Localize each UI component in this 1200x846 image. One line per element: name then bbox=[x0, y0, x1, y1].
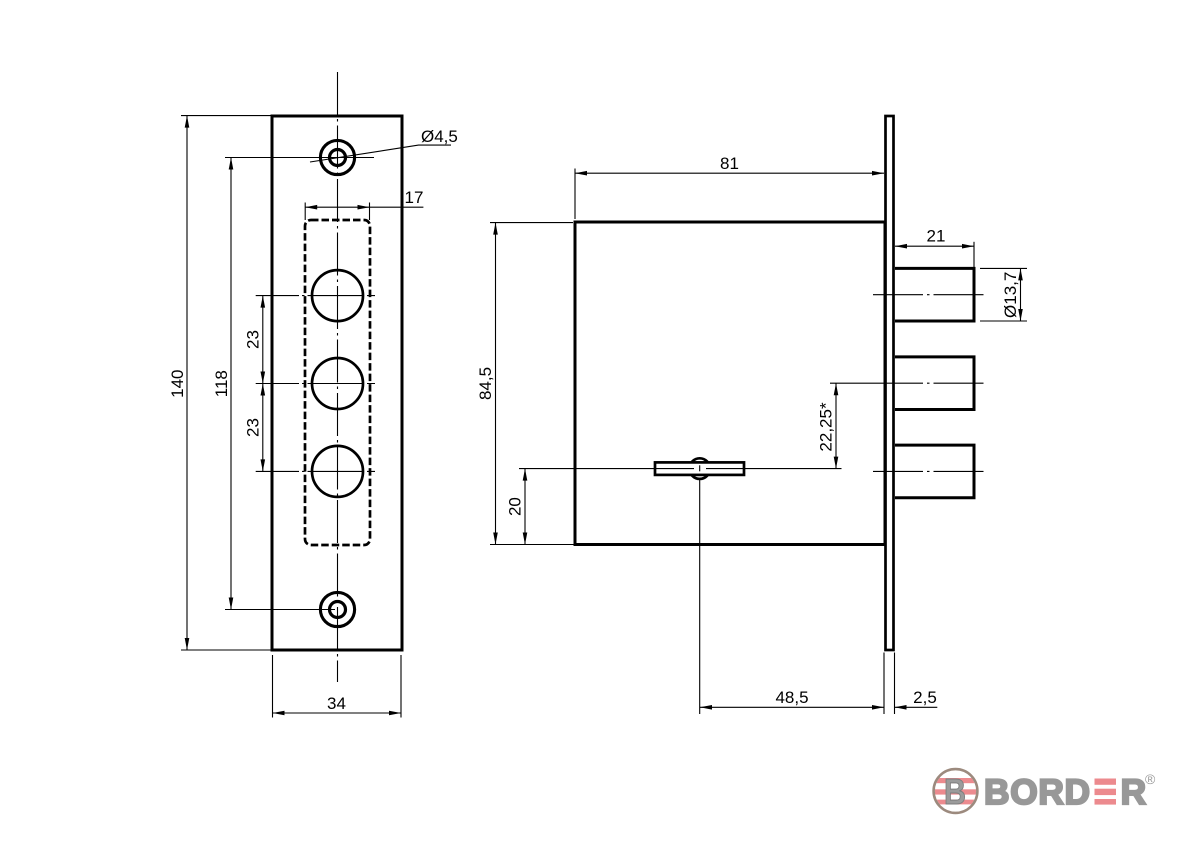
svg-text:BORD: BORD bbox=[984, 773, 1091, 812]
svg-text:48,5: 48,5 bbox=[775, 688, 808, 707]
dimension 84,5 bbox=[490, 222, 573, 224]
screw hole top outer bbox=[320, 140, 354, 174]
bolt hole circle 1 bbox=[312, 270, 363, 321]
bolt centerline 3 bbox=[873, 470, 986, 472]
dimension 118 bbox=[225, 157, 374, 159]
emblem ring bbox=[934, 769, 978, 813]
dimension diameter 13,7 bbox=[980, 267, 1027, 269]
screw hole bottom inner bbox=[330, 602, 346, 618]
dimension 17 bbox=[304, 203, 306, 221]
svg-text:21: 21 bbox=[927, 227, 946, 246]
dimension 23 upper bbox=[262, 296, 264, 384]
bolt 1 bbox=[895, 268, 974, 321]
bolt centerline 1 bbox=[873, 294, 986, 296]
svg-text:R: R bbox=[1121, 773, 1147, 812]
lock body outline bbox=[575, 222, 885, 545]
svg-text:23: 23 bbox=[244, 330, 263, 349]
dashed lock-body hidden outline bbox=[305, 220, 370, 545]
emblem stripes bbox=[932, 778, 979, 804]
svg-text:81: 81 bbox=[720, 154, 739, 173]
key center tick bbox=[699, 465, 701, 471]
svg-text:B: B bbox=[944, 771, 966, 812]
svg-text:84,5: 84,5 bbox=[476, 367, 495, 400]
svg-text:20: 20 bbox=[506, 497, 525, 516]
svg-text:Ø13,7: Ø13,7 bbox=[1001, 272, 1020, 318]
dimension 21 bbox=[973, 242, 975, 268]
dimension 23 lower bbox=[262, 384, 264, 472]
screw hole top inner bbox=[330, 150, 346, 166]
wordmark E bars bbox=[1095, 779, 1117, 785]
svg-text:®: ® bbox=[1145, 771, 1156, 787]
svg-text:Ø4,5: Ø4,5 bbox=[421, 127, 458, 146]
faceplate side bar bbox=[886, 116, 894, 650]
hole centerline 2 bbox=[256, 383, 375, 385]
key axis line down bbox=[699, 479, 701, 714]
centerline vertical front view bbox=[337, 72, 339, 682]
keyhole circle bbox=[689, 458, 710, 479]
svg-text:118: 118 bbox=[212, 370, 231, 397]
screw hole bottom outer bbox=[320, 592, 354, 626]
dimension 20 bbox=[524, 469, 526, 545]
svg-text:34: 34 bbox=[327, 694, 346, 713]
dimension 22,25 bbox=[830, 382, 873, 384]
dimension 81 bbox=[574, 169, 576, 220]
faceplate outline bbox=[272, 116, 402, 650]
dimension 34 bbox=[272, 655, 274, 718]
svg-text:2,5: 2,5 bbox=[913, 688, 937, 707]
bolt centerline 2 bbox=[873, 382, 986, 384]
dimension 2,5 bbox=[895, 706, 938, 708]
svg-text:140: 140 bbox=[168, 370, 187, 398]
svg-text:17: 17 bbox=[405, 188, 424, 207]
hole centerline 3 bbox=[256, 470, 375, 472]
leader diameter 4,5 bbox=[310, 145, 451, 162]
svg-text:23: 23 bbox=[244, 418, 263, 437]
bolt 3 bbox=[895, 445, 974, 498]
bolt 2 bbox=[895, 357, 974, 410]
dimension 140 bbox=[181, 115, 272, 117]
keyhole slot bbox=[655, 462, 744, 475]
svg-text:22,25*: 22,25* bbox=[817, 402, 836, 452]
hole centerline 1 bbox=[256, 295, 375, 297]
bolt hole circle 2 bbox=[312, 358, 363, 409]
dimension 48,5 bbox=[883, 653, 885, 715]
bolt hole circle 3 bbox=[312, 446, 363, 497]
key level line bbox=[519, 468, 694, 470]
